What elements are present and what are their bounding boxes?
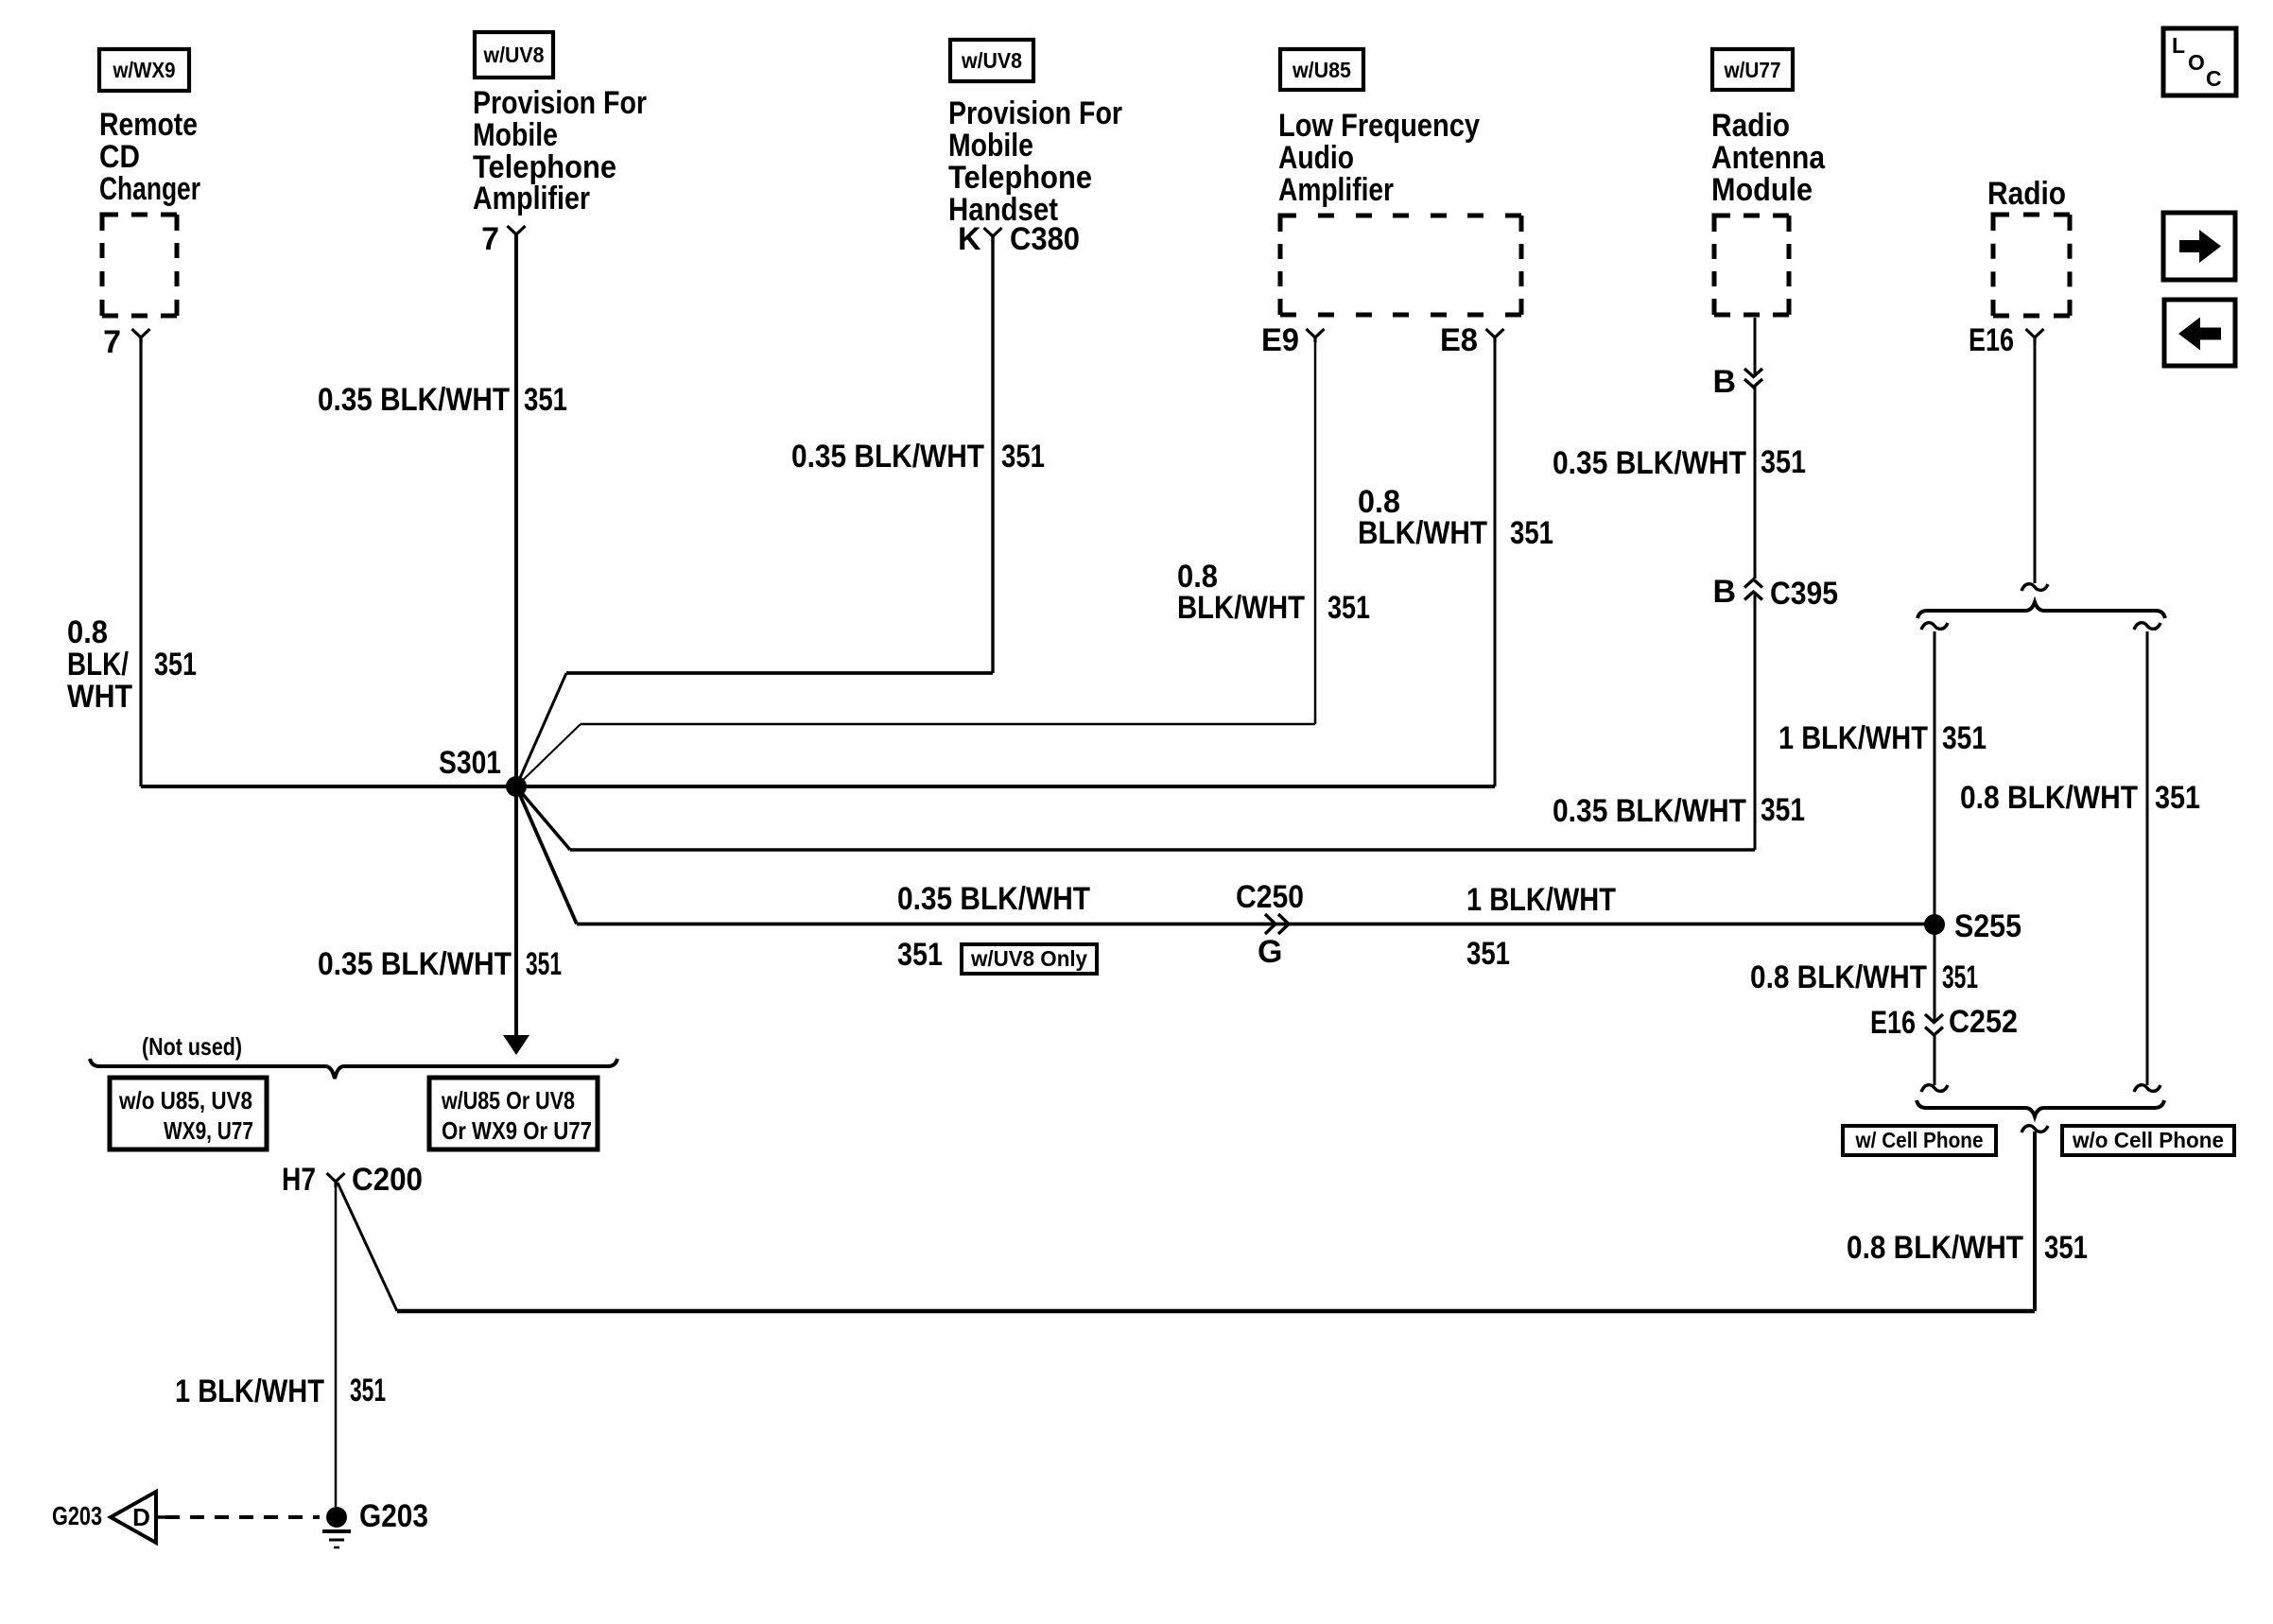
svg-text:1 BLK/WHT: 1 BLK/WHT	[175, 1373, 324, 1409]
svg-text:w/U85 Or UV8: w/U85 Or UV8	[441, 1086, 575, 1114]
svg-text:351: 351	[350, 1373, 386, 1408]
svg-text:w/o U85, UV8: w/o U85, UV8	[118, 1086, 252, 1114]
svg-text:BLK/: BLK/	[67, 647, 129, 682]
svg-text:w/WX9: w/WX9	[113, 58, 176, 82]
svg-text:0.8: 0.8	[67, 614, 108, 650]
svg-text:Radio: Radio	[1711, 108, 1790, 144]
svg-text:Telephone: Telephone	[948, 160, 1092, 196]
svg-text:7: 7	[103, 324, 121, 360]
svg-text:Mobile: Mobile	[473, 117, 558, 153]
svg-text:Audio: Audio	[1278, 140, 1354, 176]
svg-text:0.8 BLK/WHT: 0.8 BLK/WHT	[1750, 959, 1927, 995]
svg-text:G203: G203	[52, 1501, 102, 1530]
svg-text:w/U77: w/U77	[1724, 58, 1781, 82]
svg-text:G: G	[1258, 934, 1282, 970]
svg-text:K: K	[958, 221, 981, 257]
svg-text:BLK/WHT: BLK/WHT	[1177, 590, 1305, 626]
svg-text:351: 351	[2155, 780, 2200, 816]
svg-text:351: 351	[1761, 792, 1805, 828]
svg-text:WHT: WHT	[67, 679, 132, 715]
svg-text:351: 351	[2044, 1230, 2088, 1266]
svg-text:C395: C395	[1770, 576, 1838, 612]
svg-text:S301: S301	[439, 745, 501, 781]
svg-text:WX9, U77: WX9, U77	[164, 1116, 253, 1145]
svg-text:Low Frequency: Low Frequency	[1278, 108, 1480, 144]
svg-text:351: 351	[1942, 720, 1987, 756]
svg-text:w/ Cell Phone: w/ Cell Phone	[1855, 1128, 1984, 1152]
svg-text:(Not used): (Not used)	[142, 1032, 242, 1061]
svg-text:Amplifier: Amplifier	[1278, 172, 1394, 208]
svg-text:G203: G203	[359, 1498, 428, 1534]
svg-text:351: 351	[526, 946, 562, 982]
svg-text:0.35 BLK/WHT: 0.35 BLK/WHT	[318, 946, 512, 982]
svg-text:351: 351	[1466, 936, 1510, 972]
svg-text:1 BLK/WHT: 1 BLK/WHT	[1466, 882, 1616, 918]
svg-text:CD: CD	[99, 139, 140, 175]
svg-text:w/UV8 Only: w/UV8 Only	[970, 946, 1087, 971]
svg-text:351: 351	[524, 382, 567, 418]
svg-text:Radio: Radio	[1987, 176, 2066, 212]
svg-text:1 BLK/WHT: 1 BLK/WHT	[1778, 720, 1928, 756]
svg-text:C200: C200	[352, 1162, 423, 1198]
svg-text:351: 351	[1001, 439, 1045, 475]
svg-text:BLK/WHT: BLK/WHT	[1358, 515, 1487, 551]
svg-text:351: 351	[154, 647, 197, 682]
svg-text:C: C	[2206, 66, 2222, 91]
svg-text:Module: Module	[1711, 172, 1813, 208]
svg-text:E9: E9	[1261, 322, 1299, 358]
svg-text:0.35 BLK/WHT: 0.35 BLK/WHT	[791, 439, 984, 475]
svg-text:351: 351	[1942, 959, 1978, 995]
svg-text:Provision For: Provision For	[473, 85, 647, 121]
svg-text:w/U85: w/U85	[1292, 58, 1351, 82]
svg-text:Changer: Changer	[99, 171, 200, 207]
svg-text:w/UV8: w/UV8	[483, 43, 545, 67]
svg-text:0.35 BLK/WHT: 0.35 BLK/WHT	[1553, 445, 1746, 481]
svg-text:E16: E16	[1870, 1005, 1916, 1041]
svg-text:351: 351	[897, 937, 943, 973]
svg-text:Mobile: Mobile	[948, 128, 1033, 164]
svg-text:B: B	[1712, 574, 1736, 610]
svg-text:B: B	[1712, 364, 1736, 400]
svg-text:D: D	[132, 1503, 150, 1531]
svg-text:C250: C250	[1236, 879, 1304, 915]
svg-text:351: 351	[1510, 515, 1553, 551]
svg-text:7: 7	[481, 221, 499, 257]
svg-text:0.35 BLK/WHT: 0.35 BLK/WHT	[1553, 793, 1746, 829]
svg-text:0.35 BLK/WHT: 0.35 BLK/WHT	[897, 881, 1090, 917]
svg-text:E16: E16	[1969, 322, 2014, 358]
svg-text:Remote: Remote	[99, 107, 198, 143]
svg-text:0.35 BLK/WHT: 0.35 BLK/WHT	[318, 382, 510, 418]
svg-text:0.8 BLK/WHT: 0.8 BLK/WHT	[1847, 1230, 2023, 1266]
svg-text:Antenna: Antenna	[1711, 140, 1826, 176]
svg-text:C380: C380	[1010, 221, 1080, 257]
svg-text:L: L	[2172, 33, 2185, 58]
svg-text:S255: S255	[1954, 908, 2021, 944]
svg-text:O: O	[2188, 50, 2205, 75]
svg-text:Provision For: Provision For	[948, 95, 1122, 131]
svg-text:E8: E8	[1440, 322, 1478, 358]
svg-text:351: 351	[1761, 444, 1806, 480]
svg-text:C252: C252	[1949, 1004, 2018, 1040]
svg-text:w/o Cell Phone: w/o Cell Phone	[2072, 1128, 2224, 1152]
svg-text:351: 351	[1327, 590, 1370, 626]
svg-text:w/UV8: w/UV8	[961, 48, 1022, 73]
svg-text:0.8 BLK/WHT: 0.8 BLK/WHT	[1960, 780, 2138, 816]
svg-text:Amplifier: Amplifier	[473, 181, 590, 216]
svg-text:Or WX9 Or U77: Or WX9 Or U77	[442, 1116, 592, 1145]
svg-text:H7: H7	[282, 1162, 316, 1198]
